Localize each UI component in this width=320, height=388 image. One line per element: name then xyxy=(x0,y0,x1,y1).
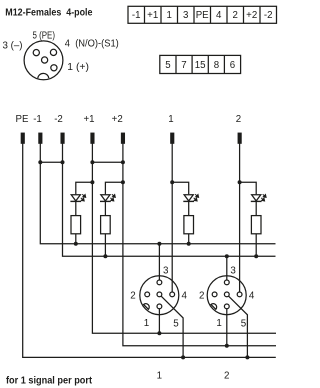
svg-text:+2: +2 xyxy=(246,10,257,21)
svg-text:5 (PE): 5 (PE) xyxy=(33,31,56,42)
X2 pin 3 xyxy=(224,280,229,285)
svg-text:1: 1 xyxy=(167,10,172,21)
wire resistor R3 to bus A xyxy=(188,234,190,244)
X2 pin 1 wire to bus D xyxy=(226,309,228,346)
face center hole xyxy=(42,57,48,63)
resistor R3 xyxy=(184,216,194,234)
wire LED D3 to resistor R3 xyxy=(188,201,190,215)
X1 pin 5 wire diagonal to bus E xyxy=(161,296,183,357)
junction R3 bus A xyxy=(187,242,191,246)
LED D1 xyxy=(70,194,85,201)
X1 pin 3 xyxy=(157,280,162,285)
svg-text:PE: PE xyxy=(196,10,209,21)
X1 pin 2 xyxy=(145,292,150,297)
terminal pin -2 xyxy=(61,133,64,143)
svg-text:5: 5 xyxy=(173,319,179,330)
junction X1 pin3 bus A xyxy=(157,242,161,246)
svg-text:+2: +2 xyxy=(112,114,123,125)
svg-text:1: 1 xyxy=(216,318,221,329)
junction branch 4 on wire 2 xyxy=(238,180,242,184)
junction R1 bus A xyxy=(74,242,78,246)
svg-text:4 (N/O)-(S1): 4 (N/O)-(S1) xyxy=(65,39,119,50)
X1 pin 4 xyxy=(170,292,175,297)
terminal pin 2 xyxy=(238,133,241,143)
branch 1 tap wire from +1 xyxy=(76,182,93,194)
junction -2 link xyxy=(61,160,65,164)
link wire -1 to -2 xyxy=(40,161,62,163)
svg-text:-1: -1 xyxy=(33,114,42,125)
junction X1 pin5 bus E xyxy=(181,355,185,359)
svg-text:2: 2 xyxy=(233,10,238,21)
wire LED D1 to resistor R1 xyxy=(75,201,77,215)
junction X2 pin5 bus E xyxy=(245,355,249,359)
svg-text:15: 15 xyxy=(195,60,206,71)
junction +1 link xyxy=(90,160,94,164)
X2 pin 2 xyxy=(212,292,217,297)
terminal pin PE xyxy=(21,133,24,143)
LED D3 xyxy=(183,194,198,201)
svg-text:7: 7 xyxy=(181,60,186,71)
connector X1 outline xyxy=(140,276,179,315)
svg-text:-2: -2 xyxy=(54,114,63,125)
junction R4 bus B xyxy=(254,254,258,258)
junction X2 pin1 bus D xyxy=(225,344,229,348)
branch 3 tap wire from signal 1 xyxy=(172,182,189,194)
svg-text:6: 6 xyxy=(230,60,235,71)
face pin 4 hole (top-right) xyxy=(50,49,56,55)
svg-text:4: 4 xyxy=(249,290,255,301)
junction branch 3 on wire 1 xyxy=(170,180,174,184)
wire +2 vertical and bus D horizontal xyxy=(123,143,276,346)
svg-text:3: 3 xyxy=(230,265,236,276)
wire resistor R1 to bus A xyxy=(75,234,77,244)
junction X1 pin1 bus C xyxy=(157,331,161,335)
junction -1 link xyxy=(38,160,42,164)
svg-text:1: 1 xyxy=(157,371,162,382)
X1 keying notch xyxy=(144,304,150,310)
connector X1 pin 3 drop from bus A xyxy=(158,244,160,280)
wire PE vertical and bus E horizontal xyxy=(23,143,276,357)
wire LED D2 to resistor R2 xyxy=(104,201,106,215)
wire 2 vertical to connector 2 pin 4 xyxy=(239,143,241,292)
wire -2 vertical and bus B horizontal xyxy=(63,143,276,256)
svg-text:2: 2 xyxy=(236,114,241,125)
wire -1 vertical and bus A horizontal xyxy=(40,143,275,244)
svg-text:PE: PE xyxy=(16,114,29,125)
svg-text:2: 2 xyxy=(130,290,135,301)
junction R2 bus B xyxy=(103,254,107,258)
svg-text:for 1 signal per port: for 1 signal per port xyxy=(6,375,93,386)
svg-text:5: 5 xyxy=(241,319,247,330)
terminal table row 2 xyxy=(160,55,241,73)
LED D4 xyxy=(251,194,266,201)
terminal pin -1 xyxy=(39,133,42,143)
resistor R4 xyxy=(251,216,261,234)
connector face outline xyxy=(24,41,63,80)
X2 pin 1 xyxy=(224,304,229,309)
svg-text:3: 3 xyxy=(163,265,169,276)
resistor R1 xyxy=(71,216,81,234)
svg-text:4: 4 xyxy=(182,290,188,301)
X1 pin 1 wire to bus C xyxy=(158,309,160,333)
svg-text:2: 2 xyxy=(224,371,229,382)
svg-text:+1: +1 xyxy=(147,10,158,21)
wire LED D4 to resistor R4 xyxy=(255,201,257,215)
junction branch 2 on +2 xyxy=(121,180,125,184)
svg-text:M12-Females 4-pole: M12-Females 4-pole xyxy=(5,8,93,19)
svg-text:5: 5 xyxy=(165,60,170,71)
wire +1 vertical and bus C horizontal xyxy=(92,143,276,333)
svg-text:-2: -2 xyxy=(264,10,273,21)
X2 pin 5 wire diagonal to bus E xyxy=(229,296,248,357)
branch 2 tap wire from +2 xyxy=(105,182,123,194)
face pin 1 hole (bottom-right) xyxy=(51,65,57,71)
face pin 5 hole (top-left) xyxy=(33,50,39,56)
branch 4 tap wire from signal 2 xyxy=(240,182,257,194)
X1 pin 1 xyxy=(157,304,162,309)
svg-text:3: 3 xyxy=(183,10,188,21)
svg-text:2: 2 xyxy=(199,290,204,301)
terminal table row 1 xyxy=(128,6,277,23)
terminal pin +1 xyxy=(91,133,94,143)
svg-text:3 (–): 3 (–) xyxy=(3,40,23,51)
svg-text:1: 1 xyxy=(168,114,173,125)
resistor R2 xyxy=(101,216,111,234)
svg-text:-1: -1 xyxy=(132,10,141,21)
svg-text:8: 8 xyxy=(214,60,219,71)
svg-text:1 (+): 1 (+) xyxy=(67,62,89,73)
terminal pin +2 xyxy=(122,133,125,143)
LED D2 xyxy=(100,194,115,201)
terminal pin 1 xyxy=(171,133,174,143)
junction branch 1 on +1 xyxy=(90,180,94,184)
svg-text:4: 4 xyxy=(216,10,222,21)
svg-text:1: 1 xyxy=(144,318,149,329)
X1 pin 5 xyxy=(157,292,162,297)
wire resistor R4 to bus B xyxy=(255,234,257,256)
junction +2 link xyxy=(121,160,125,164)
X2 keying notch xyxy=(211,304,217,310)
X2 pin 4 xyxy=(237,292,242,297)
wire 1 vertical to connector 1 pin 4 xyxy=(171,143,173,292)
X2 pin 5 xyxy=(224,292,229,297)
wire resistor R2 to bus B xyxy=(104,234,106,256)
svg-text:+1: +1 xyxy=(83,114,94,125)
connector X2 outline xyxy=(207,276,246,315)
connector X2 pin 3 drop from bus B xyxy=(226,256,228,280)
link wire +1 to +2 xyxy=(92,161,123,163)
junction X2 pin3 bus B xyxy=(225,254,229,258)
face keying notch xyxy=(38,73,49,78)
